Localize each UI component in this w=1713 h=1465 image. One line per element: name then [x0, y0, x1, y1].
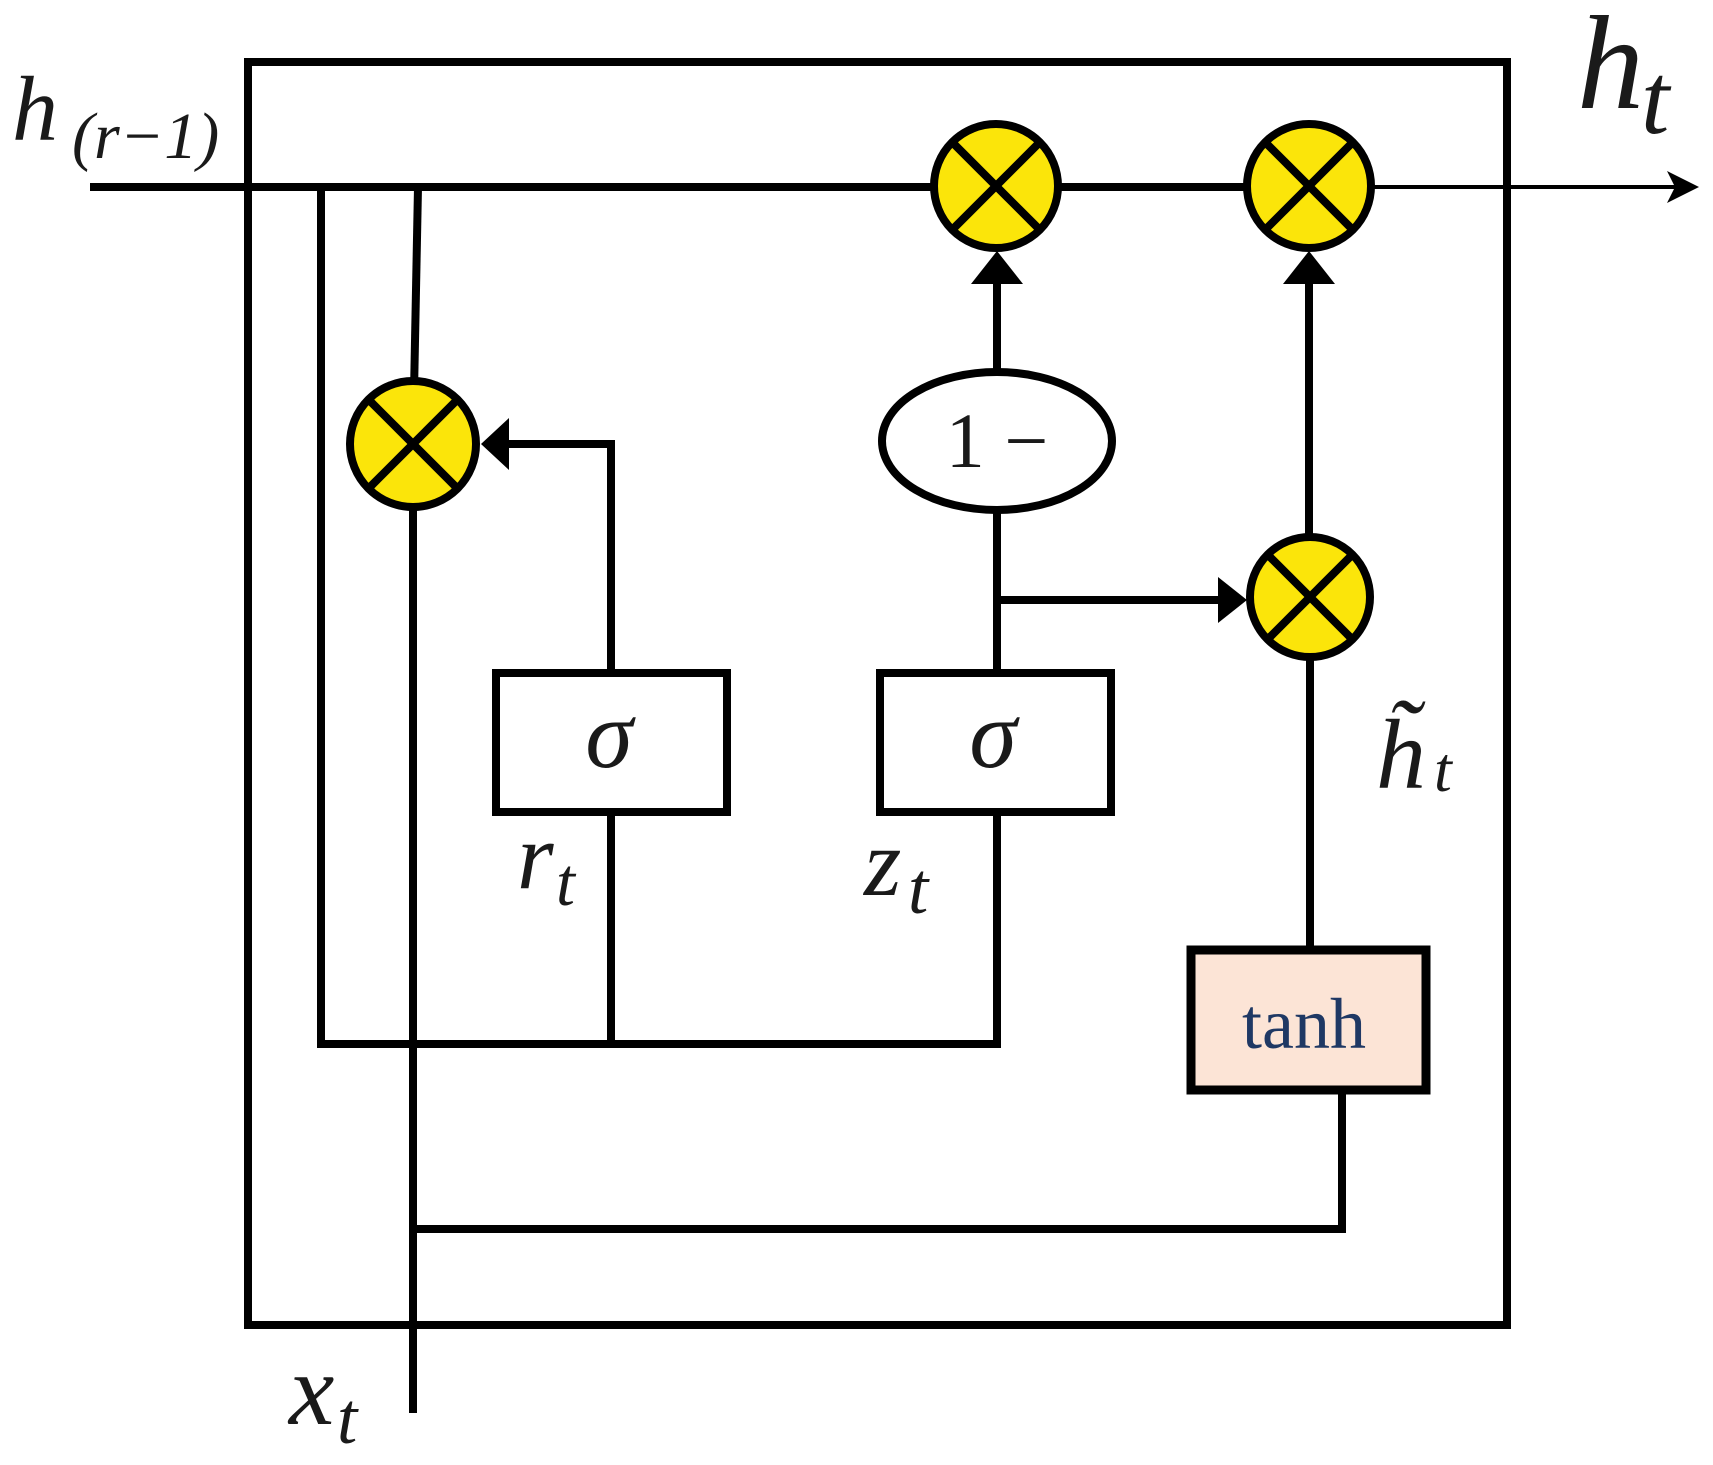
- wire zt branch horizontal into multiply node 3: [993, 596, 1222, 604]
- wire 1-minus up to multiply node 1: [993, 283, 1001, 372]
- label xt: [287, 1334, 359, 1459]
- wire multiply node 3 down to tanh: [1306, 655, 1314, 954]
- svg-text:r: r: [517, 805, 554, 909]
- arrowhead output ht: [1667, 171, 1699, 203]
- wire sigma-z down to h feed line: [993, 808, 1001, 1048]
- label h-tilde t: [1376, 699, 1454, 810]
- arrowhead into left multiply node: [481, 418, 509, 470]
- svg-text:t: t: [556, 844, 577, 920]
- svg-text:x: x: [287, 1334, 334, 1447]
- wire vertical xt input line (upper, slightly tilted): [413, 187, 418, 444]
- svg-text:σ: σ: [969, 681, 1020, 788]
- svg-text:(r−1): (r−1): [72, 100, 219, 173]
- svg-text:tanh: tanh: [1242, 984, 1366, 1064]
- sigma box z gate: [880, 673, 1111, 812]
- svg-text:σ: σ: [585, 681, 636, 788]
- arrowhead up into multiply node 1: [971, 251, 1023, 284]
- wire horizontal h feed line to sigma gates: [317, 1040, 1001, 1048]
- multiply node 3 (right middle): [1250, 537, 1370, 657]
- wire xt branch horizontal to tanh: [411, 1225, 1346, 1233]
- multiply node left (reset gate product): [350, 381, 476, 507]
- wire rt line from sigma-r up to multiply node: [611, 440, 615, 448]
- svg-text:t: t: [908, 848, 930, 929]
- wire vertical between multiply node 2 and multiply node 3: [1305, 282, 1313, 537]
- label h(r-1): [12, 58, 219, 173]
- svg-text:1 −: 1 −: [946, 397, 1049, 484]
- sigma box r gate: [496, 673, 727, 812]
- tanh box: [1191, 950, 1426, 1090]
- wire vertical from tanh bottom: [1338, 1086, 1346, 1233]
- svg-text:h: h: [12, 58, 58, 160]
- wire thin output line to ht arrow: [1309, 185, 1676, 189]
- label zt: [862, 809, 930, 929]
- multiply node 2 (top right): [1247, 124, 1371, 248]
- svg-text:t: t: [1641, 43, 1672, 156]
- wire sigma-r down to h feed line: [607, 808, 615, 1048]
- label rt: [517, 805, 577, 920]
- svg-text:h̃: h̃: [1376, 699, 1426, 810]
- multiply node 1 (top middle): [934, 124, 1058, 248]
- wire vertical xt input line (lower): [409, 444, 417, 1413]
- outer GRU cell box: [248, 62, 1507, 1325]
- arrowhead up into multiply node 2: [1283, 251, 1335, 284]
- wire sigma-z up to 1-minus ellipse: [993, 510, 1001, 677]
- svg-text:t: t: [1434, 734, 1454, 805]
- svg-text:z: z: [862, 809, 901, 916]
- svg-text:h: h: [1577, 0, 1644, 137]
- 1-minus ellipse: [882, 372, 1112, 510]
- wire h(t-1) main horizontal line: [90, 183, 1309, 191]
- wire vertical h branch at x=321: [317, 187, 325, 1048]
- label ht: [1577, 0, 1672, 156]
- svg-text:t: t: [337, 1378, 359, 1459]
- arrowhead into multiply node 3: [1218, 577, 1247, 623]
